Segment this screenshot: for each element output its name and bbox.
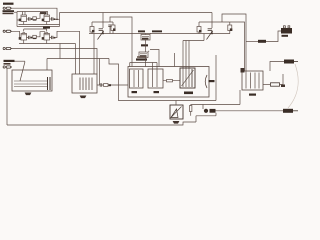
wire J4 down left edge (6, 68, 8, 125)
transformer T1 (130, 69, 144, 88)
box A right edge / output drop (59, 13, 61, 27)
B2 hatch bars (80, 78, 92, 91)
connector J1 phono input (3, 7, 12, 9)
tube V3 (19, 34, 27, 41)
wire V4 to C6 (50, 37, 54, 39)
wire V3 to C5 (27, 37, 32, 39)
bottom ground rail (7, 122, 196, 125)
wire bus row2 drop to B2 (75, 44, 77, 75)
wire row2 output run (55, 31, 79, 74)
tube V2 (42, 15, 50, 22)
resistor R2 box (33, 17, 37, 21)
main bus y33.5 (89, 33, 230, 35)
capacitor Cg1 cluster1 (99, 22, 103, 34)
wire staircase to speaker (109, 59, 216, 101)
ground B2 (80, 96, 87, 99)
wire T2 to T3 (163, 80, 180, 82)
wire connector drop (202, 105, 204, 110)
wire connector up (280, 74, 284, 85)
tube V3 lead and dome (22, 29, 25, 34)
box A top edge (collector rail) (17, 12, 48, 14)
wire T4 output (263, 84, 270, 86)
pot wiper arrow cluster1 (98, 31, 104, 40)
box A bottom edge (17, 26, 60, 28)
wire cluster1 drop (93, 34, 95, 75)
tube V4 lead and dome (45, 29, 48, 34)
wire speaker top (175, 101, 177, 106)
transformer T3 hatched (180, 68, 195, 88)
wire below connector (196, 113, 216, 122)
chassis hatch bars (48, 77, 51, 90)
wires B2 to big box (97, 84, 128, 86)
connector plug right top (284, 60, 298, 64)
wire headphone jack top (270, 62, 284, 72)
wire y58.5 run (47, 58, 109, 60)
resistor Rg3 cluster2 (197, 22, 202, 34)
wire y104.5 run (191, 90, 240, 105)
tube V1 leads (23, 12, 26, 16)
component blob at T4 top (241, 68, 245, 73)
pot wiper arrow cluster2 (207, 31, 213, 40)
label P1 value (141, 44, 148, 46)
wire cluster2 drop (183, 34, 204, 41)
connector inline output (271, 83, 280, 86)
capacitor C1 (28, 17, 30, 20)
cable arc bottom right (288, 64, 298, 108)
tube bracket (205, 75, 207, 88)
switch S1 (258, 40, 266, 43)
potentiometer P1 (141, 34, 151, 41)
resistor blob R3 (54, 18, 56, 20)
wire V1 to C1 (27, 18, 32, 20)
tube V2 lead (47, 14, 49, 16)
capacitor C2 (51, 17, 53, 20)
wire x60 drop to chassis run (59, 44, 61, 59)
amplifier big box (128, 67, 209, 98)
wire label to box A (14, 11, 17, 13)
battery B1 body (281, 28, 292, 34)
capacitor C4 on loop (108, 25, 111, 27)
connector J3 (3, 47, 12, 49)
wire J2 to V3 base (12, 31, 21, 38)
chassis inner line 2 (14, 83, 47, 85)
label T2 (154, 91, 160, 93)
cluster2 top bus (199, 21, 230, 23)
tube V1 (19, 15, 27, 22)
potentiometer P2 (139, 51, 149, 57)
wire P1 to P2 (145, 40, 147, 52)
junction dot cluster2 (211, 33, 213, 35)
wire jog stage1 to stage2 (36, 13, 45, 18)
label 4.7k on bus (152, 30, 162, 32)
label 100k bottom left (4, 60, 15, 65)
connector plug right bottom (283, 109, 298, 113)
resistor blob R1 (31, 18, 33, 20)
label T1 (132, 91, 138, 93)
wire P2 to box (145, 58, 147, 67)
connector J2 input row2 (3, 30, 12, 32)
ground chassis (25, 93, 32, 96)
wire V2 to C2 (50, 18, 54, 20)
wire x99.5 drop (99, 59, 101, 86)
wire jog stage3 to stage4 (36, 32, 45, 37)
resistor R5 box (33, 35, 37, 39)
wire label to chassis (15, 60, 26, 62)
wire R12 top and bottom (190, 105, 192, 116)
resistor R11 (167, 80, 173, 82)
wire J3 long to B2 (12, 49, 97, 75)
label tube (209, 80, 215, 82)
capacitor C6 (51, 36, 53, 39)
wire x174.5 drop (174, 53, 176, 67)
tube V4 (42, 34, 50, 41)
label DR-2 (43, 26, 50, 28)
top rail 2 (222, 14, 246, 89)
box A left edge (16, 12, 18, 27)
label 100k on bus (138, 30, 145, 32)
rail drop x103 (102, 13, 104, 23)
transformer T2 (148, 63, 163, 89)
bus inside box A (19, 22, 60, 25)
ground speaker (173, 121, 180, 124)
collector rail row2 (24, 28, 47, 30)
wire T1-T2 link y62.5 (130, 63, 157, 67)
capacitor C10 (100, 83, 102, 86)
wire C4 to bus (109, 27, 111, 34)
resistor R10 (104, 84, 109, 87)
wire J1 to stage2 output node (12, 8, 57, 19)
blob right of connector (281, 85, 285, 88)
resistor blob R4 (31, 37, 33, 39)
connector pair mid bottom (204, 109, 216, 113)
wire x216 long vertical (215, 55, 217, 101)
label 20k below T3 (184, 92, 193, 95)
resistor blob R6 (54, 37, 56, 39)
wire triple drop x189 (188, 41, 190, 88)
junction dot input node (56, 19, 58, 21)
battery label 9V (282, 35, 289, 37)
capacitor C5 row2 (28, 36, 30, 39)
wire cluster2 to T4 feed (230, 22, 245, 71)
wire P2 loop right (150, 50, 159, 67)
label title top-left (3, 3, 14, 5)
wire switch to rail2 (246, 41, 258, 43)
wire base V1 (17, 19, 19, 21)
chassis inner line 3 (14, 86, 47, 88)
bus row2 (19, 40, 76, 44)
resistor R12 (190, 106, 192, 112)
switch box B2 (72, 74, 97, 93)
connector J4 small (3, 66, 12, 68)
output transformer T4 (242, 71, 263, 90)
junction dot cluster1 (102, 33, 104, 35)
capacitor Cg2 cluster2 (208, 22, 212, 34)
chassis box bottom-left (12, 70, 52, 91)
resistor Rg4 cluster2 (228, 22, 233, 34)
wire loop x110-x132 (110, 17, 132, 67)
speaker SP1 (170, 105, 183, 119)
wire rail drop to cluster2 (211, 13, 213, 23)
label P2 value (136, 56, 147, 60)
main supply rail (60, 12, 213, 14)
blob after R10 (109, 84, 112, 86)
battery B1 terminals (284, 26, 290, 28)
wire triple drop x186 (185, 41, 187, 88)
label text block left (3, 10, 15, 14)
cluster1 top bus (92, 21, 113, 23)
chassis inner line 1 (14, 80, 47, 82)
label DR-1 (40, 12, 47, 14)
wire connector to right (216, 110, 284, 112)
chassis diagonal arm (20, 62, 25, 82)
label T4 (249, 94, 256, 96)
resistor Rg2 cluster1 (111, 22, 116, 34)
wire chassis top feed (46, 59, 48, 71)
resistor Rg1 cluster1 (90, 22, 95, 34)
wire battery to switch (266, 31, 281, 42)
wire triple drop x183 (182, 41, 184, 88)
wire C2 out to box edge (55, 18, 59, 20)
